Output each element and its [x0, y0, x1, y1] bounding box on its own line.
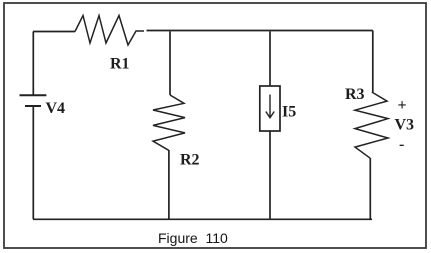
svg-text:I5: I5: [282, 104, 296, 121]
svg-text:R3: R3: [345, 86, 365, 103]
wire I5 branch upper: [269, 32, 271, 87]
svg-text:+: +: [398, 97, 407, 114]
svg-text:-: -: [399, 136, 404, 153]
svg-text:R1: R1: [110, 56, 130, 73]
wire R3 branch lower: [369, 158, 371, 219]
wire I5 branch lower: [269, 131, 271, 219]
wire R2 branch upper: [169, 32, 171, 96]
wire R3 branch upper: [372, 31, 374, 93]
wire top-left segment: [33, 31, 75, 33]
svg-text:V4: V4: [46, 100, 66, 117]
resistor R2: [153, 95, 200, 169]
resistor R3: [345, 86, 388, 158]
wire R2 branch lower: [168, 150, 170, 219]
current source I5: [260, 86, 296, 131]
svg-text:Figure 110: Figure 110: [158, 230, 228, 246]
wire left branch lower: [32, 106, 34, 219]
svg-text:V3: V3: [395, 117, 415, 134]
wire top-right segment: [147, 30, 373, 32]
wire bottom: [33, 218, 372, 220]
resistor R1: [75, 16, 144, 73]
wire left branch upper: [32, 32, 34, 96]
voltage source V4: [20, 95, 66, 117]
svg-text:R2: R2: [180, 152, 200, 169]
